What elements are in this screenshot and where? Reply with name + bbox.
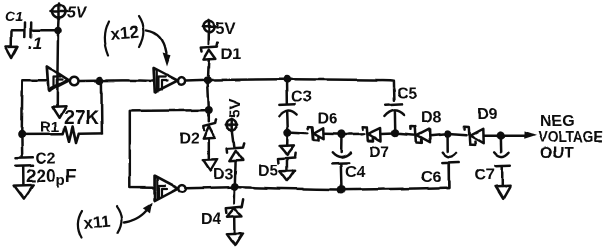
inverter U1c (x11 paralleled, Schmitt) — [155, 176, 186, 201]
svg-text:D9: D9 — [477, 106, 498, 123]
wire top rail to C5 corner — [291, 79, 394, 101]
wire rail E to C4 — [239, 187, 338, 189]
svg-text:C6: C6 — [421, 169, 442, 186]
wire J to D8 — [399, 133, 414, 134]
diode D1 (zener) — [201, 33, 241, 77]
ground (C2) — [14, 185, 33, 199]
svg-text:C7: C7 — [475, 167, 496, 184]
svg-text:VOLTAGE: VOLTAGE — [538, 129, 603, 146]
node C (x12 output) — [204, 76, 212, 84]
svg-text:D2: D2 — [179, 131, 200, 148]
svg-text:D1: D1 — [221, 47, 242, 64]
wire node D to D2 — [208, 114, 211, 122]
wire K to D9 — [452, 134, 467, 135]
svg-text:D5: D5 — [258, 163, 279, 180]
capacitor C3 — [279, 83, 312, 129]
node M (osc input / R1 / C2) — [18, 130, 26, 138]
capacitor C6 — [421, 138, 459, 187]
wire 5V rail down through inverter — [56, 34, 59, 107]
inverter U1b (x12 paralleled, Schmitt) — [154, 68, 186, 92]
node I (D6/D7/C4 junction) — [337, 130, 345, 138]
wire bottom rail (x11 output) — [186, 187, 231, 188]
wire 5V stem to node — [57, 18, 60, 30]
svg-text:5V: 5V — [216, 21, 236, 38]
svg-text:C4: C4 — [345, 164, 366, 181]
wire node B down to R1 — [100, 83, 103, 134]
node H (C3 top) — [283, 75, 291, 83]
node B (osc output) — [96, 77, 104, 85]
svg-text:D3: D3 — [213, 167, 234, 184]
diode D5 (zener, down) — [258, 137, 296, 180]
capacitor C1 — [5, 8, 55, 53]
diode D3 (zener) — [213, 130, 244, 184]
wire x12 output — [186, 79, 204, 82]
wire rail F to C6 corner — [346, 164, 449, 189]
+5V supply (top-left) — [51, 4, 88, 22]
svg-text:27K: 27K — [64, 108, 99, 129]
wire U1a output — [79, 79, 96, 82]
capacitor C4 — [332, 138, 365, 185]
node K (D8/C6/D9 junction) — [444, 130, 452, 138]
node E (D3/D4 junction) — [231, 183, 239, 191]
label (x11) with arrow — [78, 203, 153, 238]
wire G to D6 — [292, 132, 308, 135]
+5V supply (D3, rotated label) — [226, 98, 244, 130]
svg-text:D6: D6 — [318, 111, 339, 128]
ground (D2) — [203, 159, 217, 170]
svg-text:OUT: OUT — [540, 145, 574, 162]
diode D4 (zener) — [201, 191, 244, 234]
wire node B to inverter x12 input — [104, 79, 155, 82]
node F (C4 bottom) — [337, 185, 346, 194]
node J (C5/D7/D8 junction) — [391, 129, 399, 137]
node G (C3/D5/D6 junction) — [284, 129, 292, 137]
capacitor C5 — [384, 86, 417, 130]
diode D8 — [411, 109, 444, 143]
svg-text:x12: x12 — [110, 23, 140, 44]
diode D7 — [362, 127, 391, 162]
wire node C down — [208, 84, 209, 106]
output arrow NEG VOLTAGE OUT — [505, 113, 603, 162]
diode D9 — [464, 106, 497, 145]
node A (5V/C1 junction) — [54, 27, 62, 35]
ground (D4) — [227, 234, 243, 246]
capacitor C7 — [475, 140, 511, 186]
svg-text:5V: 5V — [227, 98, 244, 118]
+5V supply (D1) — [203, 20, 236, 37]
svg-text:x11: x11 — [83, 212, 112, 233]
svg-text:C1: C1 — [5, 8, 23, 24]
wire U1a input — [22, 80, 47, 130]
svg-text:D7: D7 — [369, 145, 390, 162]
diode D6 — [308, 111, 338, 141]
resistor R1 27K — [22, 108, 102, 143]
node L (output junction) — [497, 131, 506, 140]
svg-text:D8: D8 — [421, 109, 442, 126]
ground (D5) — [280, 171, 295, 181]
capacitor C2 220pF — [16, 134, 77, 189]
inverter U1a (oscillator, Schmitt) — [47, 66, 79, 91]
svg-text:C2: C2 — [35, 151, 56, 168]
svg-text:.1: .1 — [28, 34, 42, 53]
svg-text:NEG: NEG — [540, 113, 575, 130]
svg-text:C5: C5 — [397, 86, 418, 103]
wire I to D7 — [346, 133, 365, 136]
label (x12) with arrow — [105, 17, 171, 67]
diode D2 (zener) — [179, 119, 216, 159]
ground (inverter 1 supply) — [53, 106, 67, 118]
svg-text:D4: D4 — [201, 211, 222, 228]
wire top rail — [212, 78, 283, 81]
ground (C1) — [6, 46, 18, 57]
node D (feedback junction) — [205, 106, 213, 114]
svg-text:5V: 5V — [67, 5, 88, 22]
ground (C7) — [496, 186, 511, 199]
wire feedback node D to x11 input — [130, 110, 205, 188]
